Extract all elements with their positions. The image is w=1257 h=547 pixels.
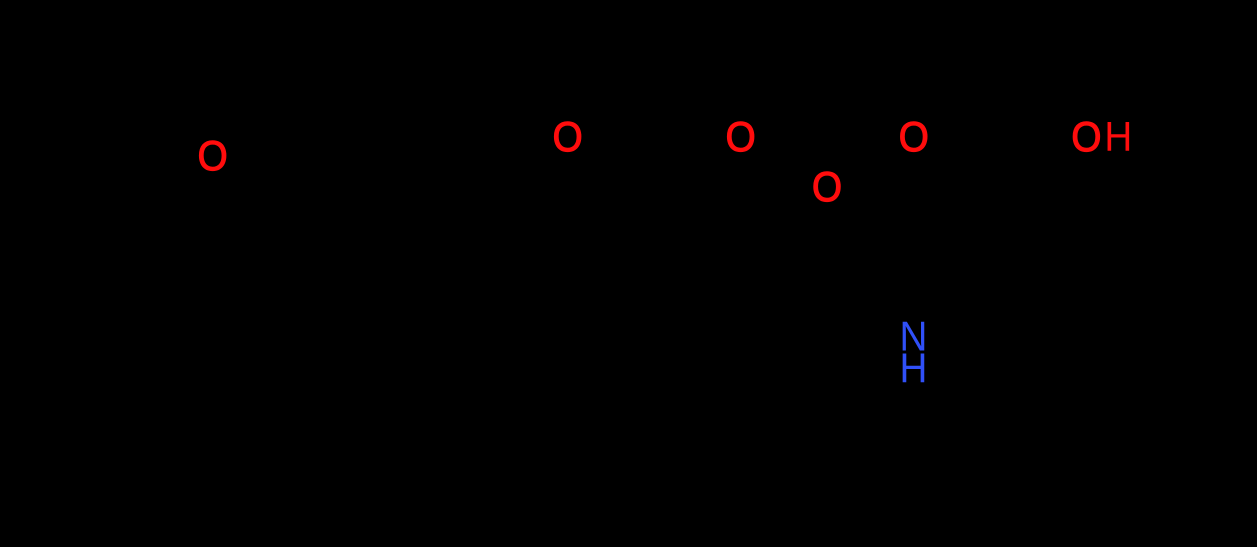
bond CH2-O1 xyxy=(125,115,195,148)
svg-text:H: H xyxy=(900,344,928,392)
svg-text:O: O xyxy=(1071,112,1101,160)
benzene ring A xyxy=(255,230,435,386)
double bond C=O5 xyxy=(930,160,1000,210)
bond O2 - C ester xyxy=(585,160,650,230)
benzene ring B xyxy=(1010,250,1180,445)
bond C-N amide xyxy=(790,280,880,330)
svg-text:O: O xyxy=(812,162,842,210)
double bond C=O4 xyxy=(790,210,822,280)
svg-text:O: O xyxy=(553,112,583,160)
svg-text:O: O xyxy=(198,131,228,179)
bond ring A - CH2 xyxy=(435,260,520,308)
bond N-C ring B xyxy=(940,300,1010,340)
svg-text:H: H xyxy=(1104,113,1132,161)
bond C-O6H xyxy=(1000,160,1065,210)
ring A inner double bonds xyxy=(310,242,380,249)
bond ring B - COOH carbon xyxy=(1000,210,1010,300)
bond O1-ring A xyxy=(230,175,300,230)
svg-text:O: O xyxy=(899,112,929,160)
svg-text:O: O xyxy=(726,112,756,160)
bond CH2 - O2 xyxy=(520,165,555,260)
bond CH3-CH2 (ethyl) xyxy=(45,70,125,115)
bond C - C xyxy=(650,230,700,310)
double bond C=O3 xyxy=(650,165,730,230)
bond C - C(=O4) xyxy=(700,280,790,310)
